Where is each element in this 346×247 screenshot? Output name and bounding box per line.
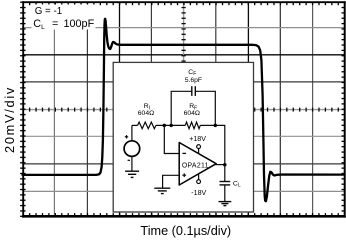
wire to inverting input <box>164 125 179 153</box>
svg-text:604Ω: 604Ω <box>184 110 200 117</box>
svg-text:G = -1: G = -1 <box>35 6 63 17</box>
capacitor CL <box>220 165 241 189</box>
schematic inset box <box>113 62 253 212</box>
svg-text:604Ω: 604Ω <box>138 110 154 117</box>
V- supply terminal -18V <box>191 174 206 197</box>
capacitor CF feedback branch: left riser and wire <box>171 91 192 125</box>
svg-text:CL: CL <box>233 180 241 188</box>
ground below CL <box>219 201 232 203</box>
node: CF left riser junction <box>169 124 173 128</box>
capacitor CF plates <box>185 69 202 96</box>
ground below source <box>125 170 139 172</box>
wire RI to RF (summing node segment) <box>156 124 185 126</box>
ground at non-inverting input <box>154 187 170 189</box>
wire from source top to RI <box>132 124 138 126</box>
svg-text:OPA211: OPA211 <box>182 162 209 169</box>
svg-text:-18V: -18V <box>191 189 206 197</box>
node: CF right riser junction <box>214 124 218 128</box>
svg-text:5.6pF: 5.6pF <box>185 77 202 84</box>
V+ supply terminal +18V <box>189 135 206 154</box>
resistor RI <box>138 103 156 129</box>
svg-text:20mV/div: 20mV/div <box>2 86 17 153</box>
source VIN circle <box>124 125 140 171</box>
svg-text:+18V: +18V <box>189 135 206 143</box>
resistor RF <box>184 103 201 129</box>
node: summing junction to op-amp inverting input <box>163 124 167 128</box>
wire CL to ground <box>224 185 226 202</box>
waveform: small-signal step response trace <box>23 19 345 201</box>
wire from non-inverting input to ground <box>163 175 180 188</box>
wire RF to output branch corner <box>200 125 225 164</box>
op-amp U1 OPA211 <box>179 143 216 186</box>
capacitor CF right wire and riser <box>195 91 215 125</box>
node: output junction <box>223 163 227 167</box>
svg-text:Time (0.1µs/div): Time (0.1µs/div) <box>140 224 231 238</box>
wire op-amp output <box>215 164 225 166</box>
